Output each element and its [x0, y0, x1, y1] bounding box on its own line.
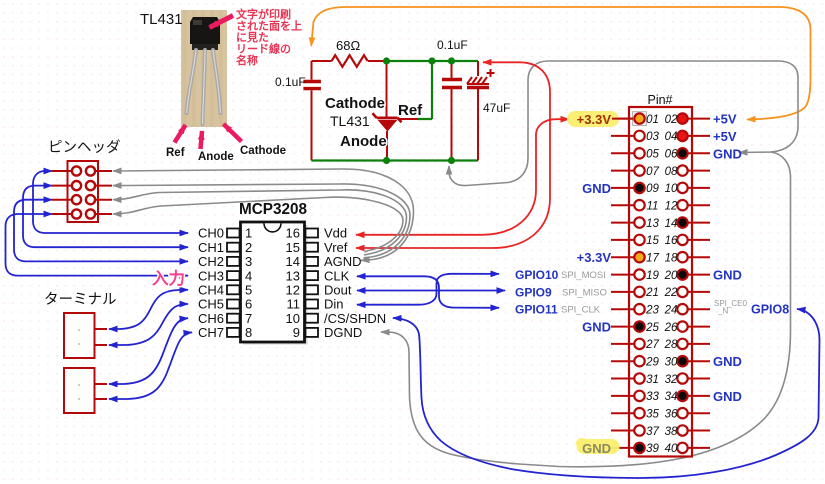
- svg-text:08: 08: [665, 166, 678, 178]
- svg-text:07: 07: [646, 166, 659, 178]
- svg-text:CH1: CH1: [198, 240, 224, 255]
- wire: gray bundle pin header row2: [113, 184, 410, 258]
- GPIO pins 23/24 row: [611, 308, 710, 310]
- op chip shadow: [243, 225, 308, 345]
- wire: gray bundle pin header row3: [113, 190, 407, 255]
- svg-text:22: 22: [664, 287, 678, 299]
- svg-text:16: 16: [286, 226, 300, 241]
- pin 14 AGND: [306, 257, 319, 266]
- GPIO pins 19/20 row: [611, 274, 710, 276]
- svg-text:3: 3: [245, 254, 252, 269]
- GPIO pins 27/28 row: [611, 343, 710, 345]
- wire: top green bus: [387, 60, 479, 62]
- svg-text:Cathode: Cathode: [240, 145, 286, 157]
- svg-text:21: 21: [645, 287, 659, 299]
- wire: red Vref to TL431 output: [356, 62, 550, 248]
- svg-text:CH7: CH7: [198, 325, 224, 340]
- GPIO pins 11/12 row: [611, 204, 710, 206]
- svg-text:AGND: AGND: [324, 254, 362, 269]
- pin header row 4 stubs: [52, 213, 112, 215]
- wire: blue pin header row3 to CH2: [14, 200, 188, 262]
- svg-text:CLK: CLK: [324, 268, 350, 283]
- GPIO pins 17/18 row: [611, 256, 710, 258]
- svg-text:CH2: CH2: [198, 254, 224, 269]
- wire: blue pin header row4 to CH3: [6, 214, 189, 276]
- svg-text:GND: GND: [713, 389, 742, 404]
- svg-text:TL431: TL431: [330, 113, 370, 129]
- svg-text:GPIO9: GPIO9: [515, 285, 552, 299]
- svg-text:47uF: 47uF: [483, 101, 510, 115]
- GPIO pins 01/02 row: [611, 118, 710, 120]
- svg-text:Dout: Dout: [324, 283, 352, 298]
- svg-text:Anode: Anode: [198, 151, 234, 163]
- svg-text:GPIO10: GPIO10: [515, 268, 559, 282]
- TL431 shunt regulator U2: [386, 61, 388, 117]
- wire: blue terminal2 a to CH6: [109, 318, 188, 384]
- svg-text:SPI_MISO: SPI_MISO: [562, 287, 607, 298]
- highlight +3.3V pin01: [567, 111, 619, 127]
- svg-text:CH3: CH3: [198, 268, 224, 283]
- GPIO header J2 outline: [629, 107, 692, 457]
- svg-text:CH5: CH5: [198, 297, 224, 312]
- svg-text:01: 01: [646, 114, 659, 126]
- GPIO pins 25/26 row: [611, 326, 710, 328]
- wire: blue CLK to GPIO11: [357, 276, 499, 308]
- arrow to Ref leg: [175, 125, 186, 143]
- svg-text:27: 27: [645, 339, 659, 351]
- svg-text:40: 40: [665, 443, 678, 455]
- svg-text:31: 31: [646, 374, 659, 386]
- wire: blue terminal1 b to CH5: [109, 304, 188, 345]
- svg-text:Ref: Ref: [398, 102, 423, 119]
- svg-text:37: 37: [646, 426, 659, 438]
- pin 16 Vdd: [306, 229, 319, 238]
- svg-text:名称: 名称: [236, 53, 258, 67]
- svg-text:+3.3V: +3.3V: [577, 250, 612, 265]
- GPIO pins 15/16 row: [611, 239, 710, 241]
- svg-text:36: 36: [665, 409, 678, 421]
- svg-text:に見た: に見た: [236, 31, 269, 44]
- svg-text:+3.3V: +3.3V: [577, 112, 612, 127]
- svg-text:0.1uF: 0.1uF: [437, 38, 468, 52]
- wire: gray bundle pin header row1 to AGND: [113, 169, 414, 260]
- svg-text:9: 9: [293, 325, 300, 340]
- svg-text:14: 14: [665, 218, 678, 230]
- pin 3 CH2: [227, 257, 240, 266]
- svg-text:28: 28: [664, 339, 678, 351]
- wire: blue Din to GPIO10: [357, 274, 499, 305]
- IC notch: [264, 223, 281, 231]
- GPIO pins 39/40 row: [611, 447, 710, 449]
- pin 5 CH4: [227, 285, 240, 294]
- GPIO pins 29/30 row: [611, 360, 710, 362]
- svg-text:15: 15: [646, 235, 659, 247]
- svg-text:Anode: Anode: [340, 133, 387, 150]
- svg-text:1: 1: [245, 226, 252, 241]
- svg-text:GND: GND: [713, 268, 742, 283]
- svg-text:SPI_CLK: SPI_CLK: [561, 305, 601, 316]
- svg-text:06: 06: [665, 149, 678, 161]
- GPIO pins 07/08 row: [611, 170, 710, 172]
- IC U1 MCP3208 body: [241, 222, 305, 342]
- capacitor C3 47uF electrolytic: [477, 61, 479, 161]
- svg-text:10: 10: [286, 311, 300, 326]
- pin 12 Dout: [306, 285, 319, 294]
- svg-text:25: 25: [645, 322, 659, 334]
- svg-text:29: 29: [645, 357, 659, 369]
- GPIO pins 31/32 row: [611, 378, 710, 380]
- svg-text:13: 13: [646, 218, 659, 230]
- capacitor C1 0.1uF (left): [303, 82, 321, 89]
- svg-text:16: 16: [665, 235, 678, 247]
- wire: gray bundle pin header row4: [113, 197, 403, 252]
- wire: blue terminal1 a to CH4: [109, 290, 188, 329]
- svg-text:Vref: Vref: [324, 240, 348, 255]
- svg-text:17: 17: [646, 253, 659, 265]
- svg-text:12: 12: [286, 283, 300, 298]
- terminal block T2: [64, 368, 95, 413]
- wire: left vertical (cathode rail): [311, 61, 313, 161]
- terminal block T1: [64, 313, 95, 358]
- wire: orange +5V loop (pin02 to TL431 cathode rail): [311, 7, 810, 120]
- svg-text:SPI_MOSI: SPI_MOSI: [561, 270, 606, 281]
- svg-text:Din: Din: [324, 297, 344, 312]
- svg-text:15: 15: [286, 240, 300, 255]
- pin header row 1 stubs: [52, 170, 112, 172]
- svg-text:26: 26: [664, 322, 678, 334]
- svg-text:Pin#: Pin#: [647, 93, 672, 107]
- svg-text:38: 38: [665, 426, 678, 438]
- svg-text:34: 34: [665, 391, 678, 403]
- svg-text:10: 10: [665, 183, 678, 195]
- annotation arrow to package face: [210, 16, 234, 28]
- label + polarity: [487, 69, 495, 77]
- svg-text:CH6: CH6: [198, 311, 224, 326]
- svg-text:11: 11: [647, 201, 659, 213]
- svg-text:8: 8: [245, 325, 252, 340]
- pin 8 CH7: [227, 328, 240, 337]
- svg-text:ピンヘッダ: ピンヘッダ: [48, 139, 121, 156]
- GPIO pins 03/04 row: [611, 135, 710, 137]
- pin 7 CH6: [227, 314, 240, 323]
- svg-text:39: 39: [646, 443, 659, 455]
- svg-text:Cathode: Cathode: [325, 95, 385, 112]
- svg-text:+5V: +5V: [713, 112, 737, 127]
- svg-text:24: 24: [664, 305, 678, 317]
- svg-text:Vdd: Vdd: [324, 226, 347, 241]
- pin 4 CH3: [227, 271, 240, 280]
- wire: top segment into resistor: [312, 60, 332, 62]
- wire: bottom green bus: [312, 159, 479, 161]
- svg-text:ターミナル: ターミナル: [44, 291, 117, 308]
- wire: Ref lead: [398, 118, 419, 120]
- GPIO pins 33/34 row: [611, 395, 710, 397]
- GPIO pins 13/14 row: [611, 222, 710, 224]
- TL431 legs (photo): [187, 50, 197, 113]
- pin 1 CH0: [227, 229, 240, 238]
- svg-text:GND: GND: [582, 181, 611, 196]
- wire: blue pin header row2 to CH1: [23, 186, 188, 248]
- resistor R1 68ohm: [332, 55, 368, 67]
- wire: gray GND loop top (pin06 GND to TL431 ground bus): [449, 61, 798, 186]
- pin 15 Vref: [306, 243, 319, 252]
- svg-text:CH4: CH4: [198, 283, 224, 298]
- svg-text:_N: _N: [717, 307, 728, 316]
- TL431 transistor body (photo): [190, 17, 220, 44]
- wire: red Vdd to +3.3V pin01: [356, 119, 569, 235]
- svg-text:4: 4: [245, 268, 252, 283]
- svg-text:+5V: +5V: [713, 129, 737, 144]
- GPIO pins 37/38 row: [611, 430, 710, 432]
- svg-text:18: 18: [665, 253, 678, 265]
- svg-text:35: 35: [646, 409, 659, 421]
- svg-text:32: 32: [665, 374, 678, 386]
- pin header row 3 stubs: [52, 199, 112, 201]
- svg-text:68Ω: 68Ω: [336, 38, 360, 53]
- svg-text:GPIO8: GPIO8: [751, 303, 789, 317]
- svg-text:CH0: CH0: [198, 226, 224, 241]
- svg-text:04: 04: [665, 131, 678, 143]
- svg-text:TL431: TL431: [140, 11, 183, 28]
- pin header row 2 stubs: [52, 185, 112, 187]
- svg-text:02: 02: [665, 114, 678, 126]
- svg-text:GND: GND: [713, 354, 742, 369]
- svg-text:GND: GND: [582, 320, 611, 335]
- arrow to Anode leg: [201, 131, 203, 149]
- svg-text:DGND: DGND: [324, 325, 362, 340]
- wire: blue /CS/SHDN to GPIO8 (bottom loop): [393, 309, 820, 478]
- wire: blue pin header row1 to CH0: [33, 171, 188, 233]
- pin header J1: [68, 161, 99, 222]
- pin 6 CH5: [227, 300, 240, 309]
- wire: gray GND loop bottom (pin06 fork to DGND): [381, 152, 791, 467]
- svg-text:2: 2: [245, 240, 252, 255]
- svg-text:GND: GND: [713, 146, 742, 161]
- wire: resistor to node: [368, 60, 387, 62]
- svg-text:03: 03: [646, 131, 659, 143]
- svg-text:/CS/SHDN: /CS/SHDN: [324, 311, 386, 326]
- svg-text:20: 20: [664, 270, 678, 282]
- GPIO pins 05/06 row: [611, 152, 710, 154]
- svg-text:6: 6: [245, 297, 252, 312]
- pin 2 CH1: [227, 243, 240, 252]
- TL431 photo background: [181, 10, 227, 127]
- wire: blue Dout to GPIO9: [357, 290, 505, 292]
- svg-text:05: 05: [646, 149, 659, 161]
- svg-text:5: 5: [245, 283, 252, 298]
- wire: blue terminal2 b to CH7: [109, 332, 192, 399]
- arrow to Cathode leg: [224, 124, 242, 142]
- GPIO pins 09/10 row: [611, 187, 710, 189]
- capacitor C2 0.1uF (right): [451, 61, 453, 161]
- pin1 marker square: [633, 112, 647, 126]
- svg-text:23: 23: [645, 305, 659, 317]
- svg-text:09: 09: [646, 183, 659, 195]
- svg-text:文字が印刷: 文字が印刷: [236, 7, 291, 21]
- pin 11 Din: [306, 300, 319, 309]
- svg-text:12: 12: [665, 201, 678, 213]
- svg-text:リード線の: リード線の: [236, 42, 291, 56]
- svg-text:7: 7: [245, 311, 252, 326]
- node: junction dots on green bus: [383, 57, 390, 64]
- svg-text:19: 19: [646, 270, 659, 282]
- svg-text:14: 14: [286, 254, 300, 269]
- svg-text:された面を上: された面を上: [236, 19, 302, 33]
- pin 9 DGND: [306, 328, 319, 337]
- svg-text:0.1uF: 0.1uF: [275, 75, 306, 89]
- svg-text:入力: 入力: [152, 268, 185, 288]
- GPIO pins 35/36 row: [611, 412, 710, 414]
- svg-text:GPIO11: GPIO11: [515, 303, 558, 317]
- svg-text:30: 30: [665, 357, 678, 369]
- svg-text:GND: GND: [582, 441, 611, 456]
- svg-text:33: 33: [646, 391, 659, 403]
- highlight GND pin39: [577, 439, 620, 454]
- pin 13 CLK: [306, 271, 319, 280]
- svg-text:MCP3208: MCP3208: [239, 201, 308, 218]
- svg-text:Ref: Ref: [166, 147, 185, 159]
- GPIO pins 21/22 row: [611, 291, 710, 293]
- svg-text:13: 13: [286, 268, 300, 283]
- svg-text:11: 11: [287, 297, 301, 312]
- pin 10 /CS/SHDN: [306, 314, 319, 323]
